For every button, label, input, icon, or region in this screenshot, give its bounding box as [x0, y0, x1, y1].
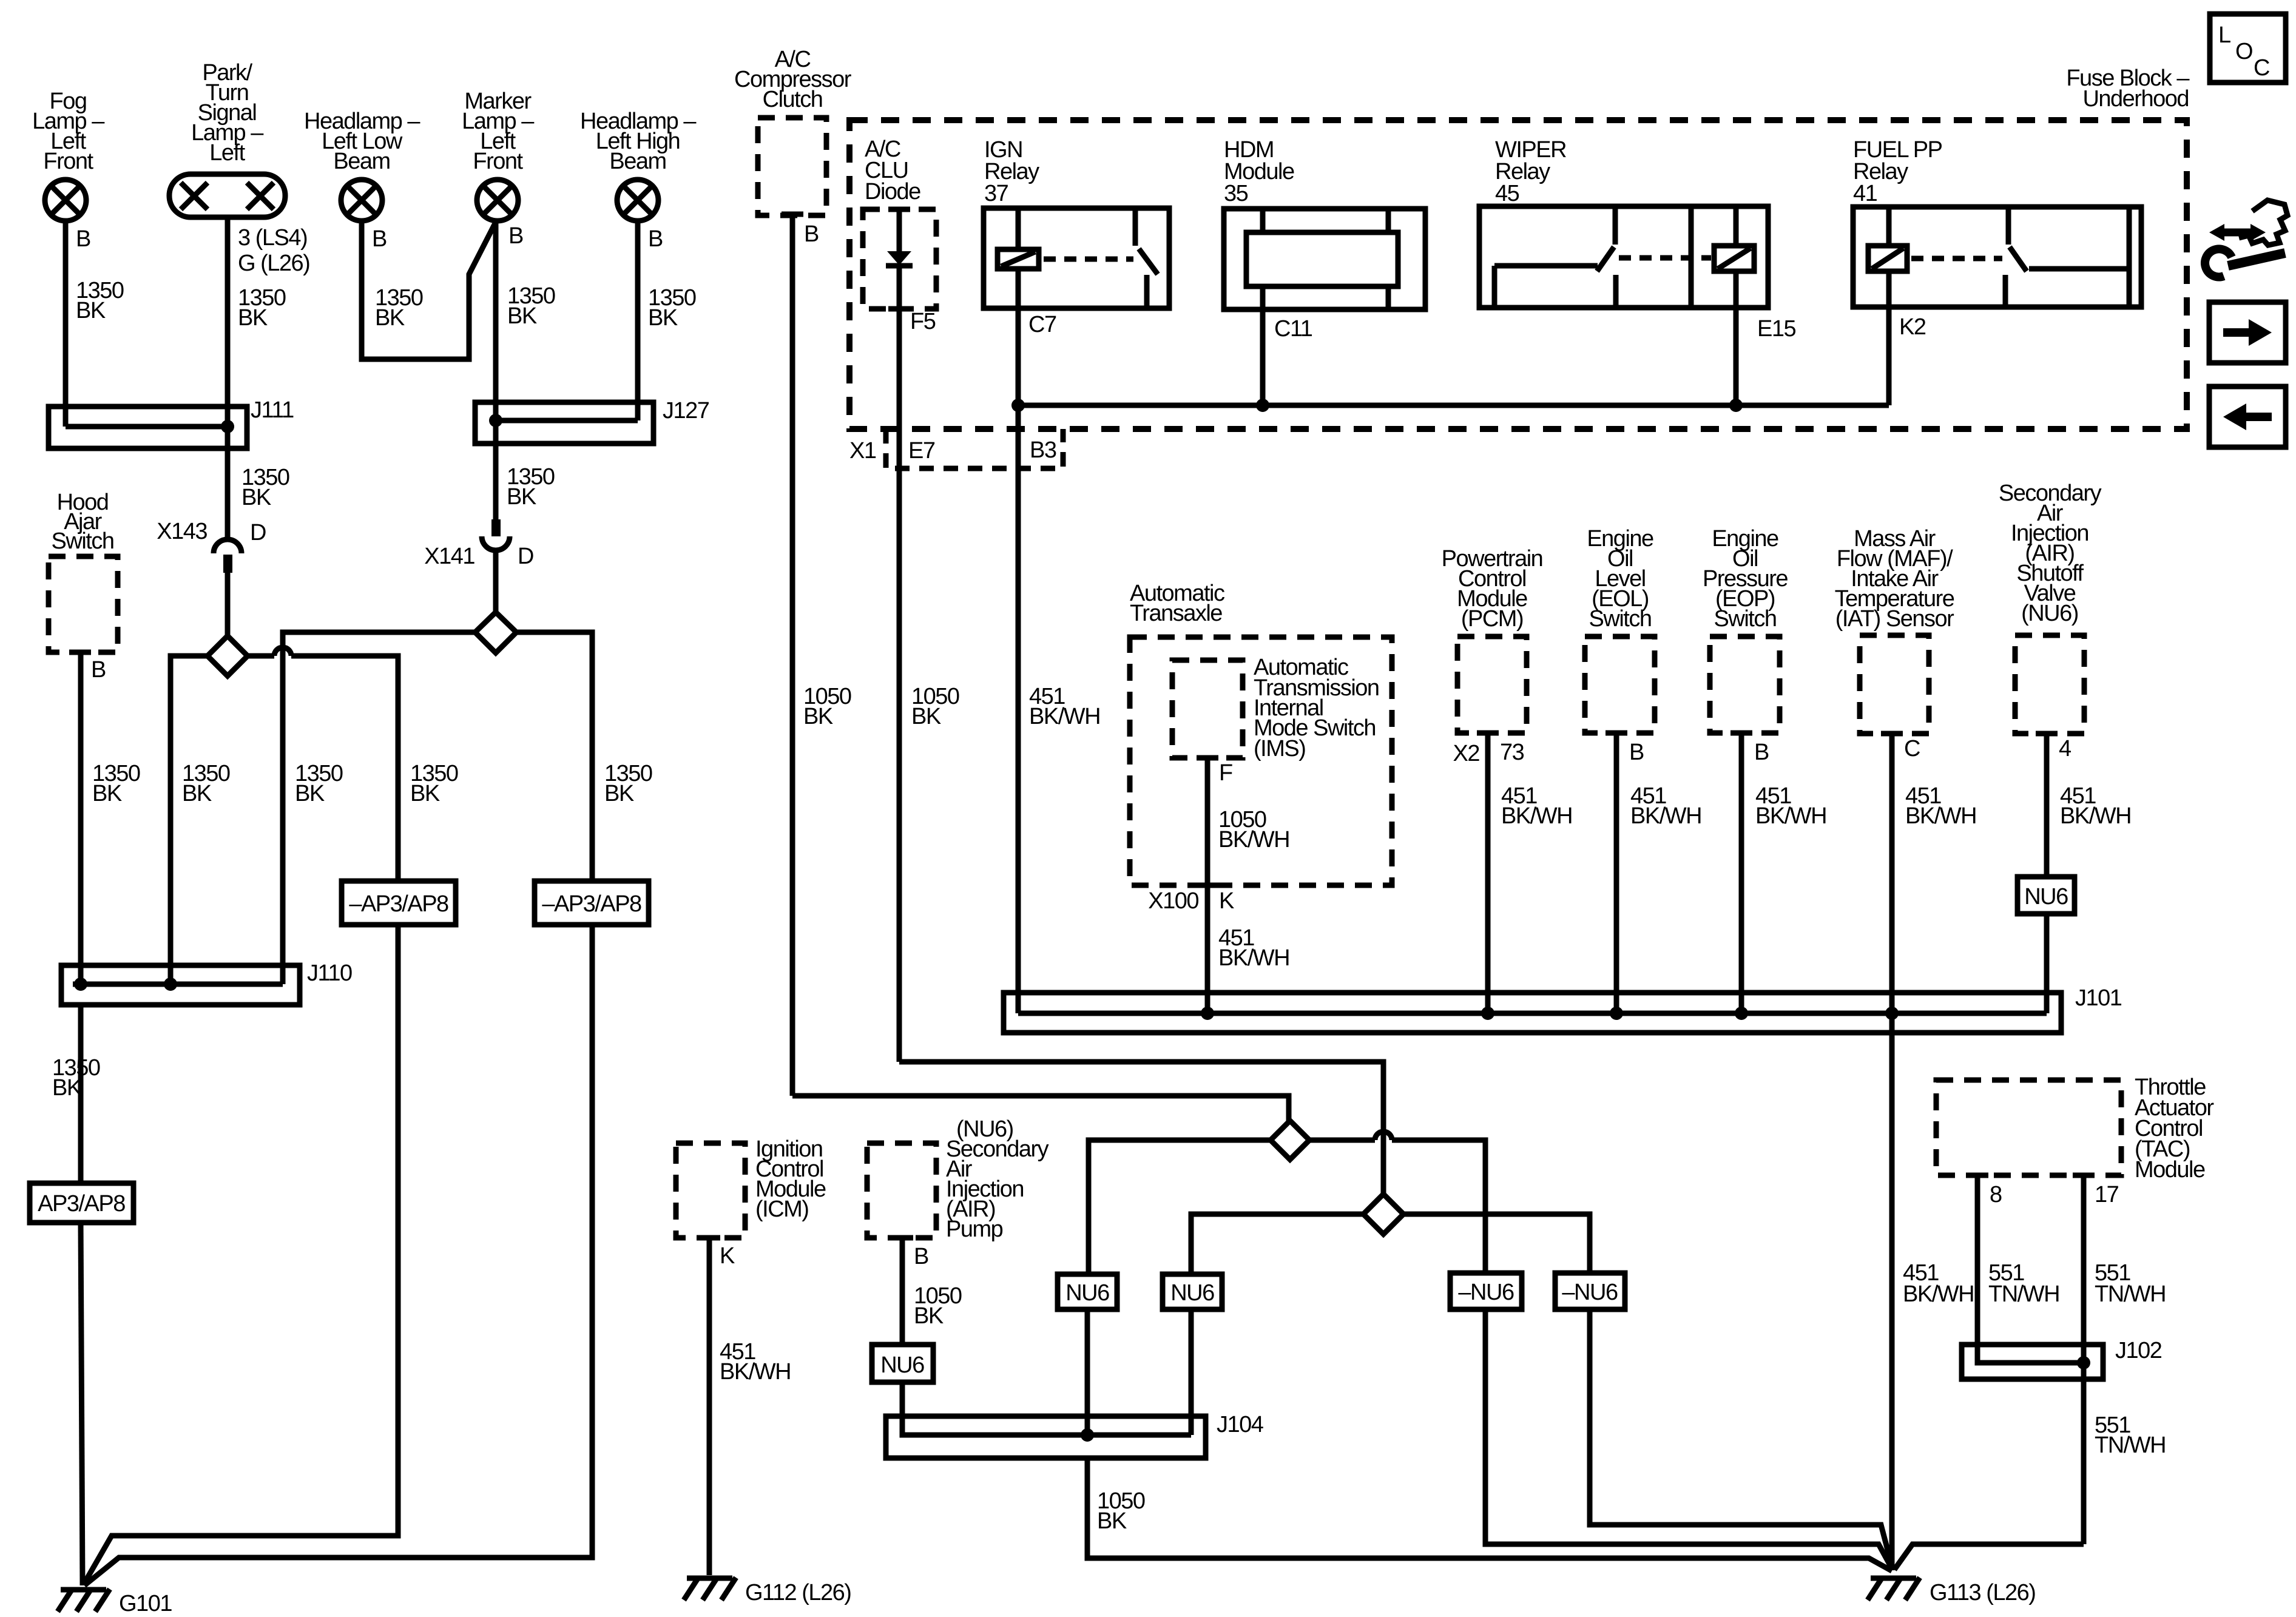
wire label 451 BK/WH (icm) [720, 1339, 791, 1385]
wire label 451 BK/WH (B3) [1029, 684, 1100, 729]
wire label 1350 BK (below J111) [241, 465, 289, 510]
wire 1350 BK J110 to AP3/AP8 [78, 1005, 84, 1183]
throttle actuator control label [2135, 1075, 2214, 1183]
svg-text:–AP3/AP8: –AP3/AP8 [542, 891, 641, 917]
svg-text:(PCM): (PCM) [1461, 606, 1523, 632]
wire wiper E15 to bus [1734, 271, 1739, 405]
svg-text:B: B [914, 1244, 928, 1269]
svg-text:BK: BK [76, 298, 106, 323]
loc box icon [2210, 14, 2286, 83]
wire 1050 BK diode down [897, 309, 902, 1062]
svg-text:B: B [1629, 740, 1644, 765]
pcm label [1442, 546, 1543, 632]
ground G112 [684, 1578, 736, 1600]
svg-text:BK/WH: BK/WH [1755, 803, 1826, 829]
hood ajar switch box [49, 556, 118, 652]
air pump label [946, 1136, 1049, 1242]
headlamp left low beam label [304, 109, 420, 174]
svg-text:Beam: Beam [609, 149, 666, 174]
fuel pp relay label [1853, 137, 1942, 206]
wire 1050 BK J104 to G113 [1087, 1458, 1892, 1571]
svg-text:J102: J102 [2115, 1338, 2162, 1363]
wire -NU6 first to G113 [1485, 1309, 1893, 1570]
wire label 1350 BK (marker) [507, 283, 555, 329]
svg-text:NU6: NU6 [880, 1352, 924, 1378]
splice pack J110 [61, 965, 300, 1005]
junction C11 bus [1256, 399, 1269, 412]
svg-text:BK: BK [648, 305, 678, 331]
svg-text:BK/WH: BK/WH [1218, 945, 1289, 971]
air shutoff valve label [1999, 481, 2102, 626]
svg-text:TN/WH: TN/WH [2095, 1433, 2166, 1458]
svg-text:G (L26): G (L26) [238, 251, 309, 276]
wire hop over diode vertical [1375, 1132, 1392, 1140]
wire X143 to diamond [225, 573, 231, 636]
wire 1350 BK high beam to J127 [635, 221, 641, 420]
a/c compressor clutch box [758, 118, 826, 215]
junction E15 bus [1729, 399, 1743, 412]
svg-text:BK: BK [238, 305, 268, 331]
svg-text:C7: C7 [1028, 312, 1056, 337]
svg-text:G112 (L26): G112 (L26) [745, 1580, 851, 1605]
svg-text:BK: BK [604, 781, 634, 806]
wire ign relay coil to bus and B3 [1016, 269, 1021, 429]
svg-text:B: B [648, 226, 663, 252]
wire diamond1 right arm with hop to -NU6 [1309, 1140, 1485, 1273]
svg-text:F5: F5 [910, 309, 936, 334]
back arrow box icon [2209, 387, 2286, 447]
ign relay label [984, 137, 1039, 206]
wire diamond right arm to -AP3/AP8 [516, 632, 592, 881]
wire 451 BK/WH B3 to J101 [1016, 429, 1021, 1013]
option box -NU6 (second) [1555, 1273, 1625, 1309]
maf iat sensor label [1835, 526, 1955, 632]
svg-text:(IAT) Sensor: (IAT) Sensor [1835, 606, 1954, 632]
svg-text:BK: BK [375, 305, 405, 331]
wire 451 BK/WH icm to G112 [707, 1238, 712, 1575]
ims label [1254, 655, 1379, 761]
wire label 1350 BK (X143 left branch) [182, 761, 230, 806]
hdm module 35 [1224, 209, 1425, 309]
svg-text:E7: E7 [908, 438, 935, 464]
svg-text:35: 35 [1224, 181, 1248, 206]
svg-text:(IMS): (IMS) [1254, 736, 1305, 761]
ign relay 37 [984, 208, 1169, 308]
connector X141 [482, 519, 510, 550]
wire label 451 BK/WH (x100) [1218, 925, 1289, 971]
wire label 1050 BK (diode) [911, 684, 959, 729]
wire label 551 TN/WH (pin17) [2095, 1260, 2166, 1307]
automatic transaxle label [1130, 581, 1224, 626]
svg-text:17: 17 [2095, 1182, 2119, 1207]
svg-text:X143: X143 [157, 519, 207, 544]
svg-text:73: 73 [1500, 740, 1524, 765]
wire label 1350 BK (X141 left branch) [295, 761, 343, 806]
svg-text:–AP3/AP8: –AP3/AP8 [349, 891, 448, 917]
svg-text:O: O [2235, 39, 2252, 64]
svg-text:45: 45 [1495, 181, 1519, 206]
wire label 451 BK/WH (maf lower) [1903, 1260, 1974, 1307]
fuse block underhood label [2066, 66, 2190, 112]
wire 451 BK/WH eop to J101 [1739, 733, 1744, 1013]
wire diamond1 left arm to NU6 box [1089, 1140, 1271, 1274]
wire label 1050 BK (a/c clutch) [803, 684, 851, 729]
a/c clu diode label [865, 137, 920, 204]
svg-text:X100: X100 [1148, 888, 1198, 914]
wire -AP3/AP8 right to G101 [84, 925, 592, 1585]
svg-text:Module: Module [2135, 1157, 2205, 1183]
headlamp left high beam label [580, 109, 697, 174]
wire label 1350 BK (hood) [92, 761, 140, 806]
fuse block underhood dashed border [849, 120, 2187, 429]
svg-text:Left: Left [209, 140, 245, 166]
eop switch label [1703, 526, 1788, 632]
wire 1350 BK J111 to X143 [225, 448, 231, 539]
svg-text:Front: Front [473, 149, 523, 174]
svg-text:Switch: Switch [52, 528, 114, 554]
svg-text:41: 41 [1853, 181, 1877, 206]
wire 551 TN/WH pin17 through J102 [2081, 1175, 2087, 1544]
svg-text:D: D [250, 520, 266, 545]
svg-text:BK/WH: BK/WH [1903, 1281, 1974, 1307]
svg-text:(ICM): (ICM) [755, 1197, 808, 1222]
wire -NU6 second to G113 [1590, 1309, 1893, 1568]
svg-text:B: B [372, 226, 387, 252]
wire NU6 box2 to J104 [1189, 1309, 1194, 1435]
wire 451 BK/WH pcm to J101 [1485, 733, 1491, 1013]
svg-text:BK: BK [52, 1075, 82, 1101]
ground G113 [1868, 1578, 1920, 1600]
wire 1050 BK a/c clutch down [790, 214, 795, 1096]
svg-text:Front: Front [43, 149, 93, 174]
svg-text:BK/WH: BK/WH [1905, 803, 1976, 829]
option box NU6 (air pump wire) [872, 1345, 933, 1382]
wire label 1350 BK (fog) [76, 278, 124, 323]
wire 1350 BK fog lamp to J111 [63, 221, 69, 427]
fog lamp symbol [45, 180, 86, 221]
wire diode net to diamond 2 [899, 1062, 1383, 1194]
splice pack J127 [475, 402, 653, 444]
eol switch box [1585, 636, 1655, 733]
park/turn signal lamp label [191, 60, 264, 166]
svg-text:K: K [720, 1243, 735, 1269]
wire diamond left arm to J110 [171, 656, 208, 984]
throttle actuator control module box [1936, 1080, 2121, 1175]
svg-text:G101: G101 [119, 1591, 172, 1616]
eop switch box [1710, 636, 1780, 733]
wire diamond right arm with hop to -AP3/AP8 [248, 656, 398, 881]
wire a/c clutch net to diamond 1 [792, 1096, 1289, 1121]
svg-text:BK: BK [241, 485, 271, 510]
svg-text:B: B [1754, 740, 1769, 765]
pin labels 3 (LS4) / G (L26) [238, 225, 309, 276]
svg-text:L: L [2218, 22, 2230, 48]
svg-text:K: K [1219, 888, 1234, 914]
ground G101 [58, 1589, 110, 1612]
hdm module label [1224, 137, 1294, 206]
marker lamp left front label [462, 89, 535, 174]
option box -NU6 (first) [1450, 1273, 1522, 1309]
wire label 1050 BK (air pump) [914, 1283, 962, 1329]
splice pack J101 [1004, 993, 2061, 1033]
svg-text:D: D [518, 544, 533, 569]
svg-text:Switch: Switch [1714, 606, 1777, 632]
ignition control module box [676, 1143, 745, 1238]
svg-text:NU6: NU6 [1065, 1280, 1109, 1306]
wire label 1350 BK (X141 right branch) [604, 761, 652, 806]
wire NU6 box1 to J104 [1085, 1309, 1090, 1435]
svg-text:BK: BK [295, 781, 325, 806]
fuse box AP3/AP8 [30, 1183, 133, 1223]
wire label 1350 BK (X143 right branch) [410, 761, 458, 806]
ignition control module label [755, 1136, 826, 1222]
svg-text:Underhood: Underhood [2082, 86, 2189, 112]
svg-text:TN/WH: TN/WH [2095, 1281, 2166, 1307]
svg-text:BK: BK [803, 704, 833, 729]
wire label 1050 BK/WH [1218, 807, 1289, 852]
svg-text:E15: E15 [1757, 316, 1795, 342]
air pump box [867, 1143, 936, 1238]
svg-text:X2: X2 [1453, 741, 1480, 766]
a/c compressor clutch label [734, 47, 852, 112]
wire label 451 BK/WH (eop) [1755, 783, 1826, 829]
svg-text:X1: X1 [849, 438, 876, 464]
bus wire inside fuse block [1018, 403, 1889, 408]
wire 551 TN/WH pin8 to J102 [1975, 1175, 1980, 1363]
forward arrow box icon [2209, 302, 2286, 363]
svg-text:Clutch: Clutch [763, 87, 823, 112]
splice pack J111 [49, 407, 247, 448]
svg-text:BK: BK [182, 781, 212, 806]
connector X1 strip [886, 429, 1063, 468]
svg-text:BK/WH: BK/WH [1501, 803, 1572, 829]
wire 1350 BK AP3/AP8 to G101 [81, 1223, 83, 1585]
svg-text:4: 4 [2059, 736, 2071, 761]
headlamp low beam lamp symbol [341, 180, 382, 221]
a/c clu diode box [863, 209, 936, 309]
svg-text:–NU6: –NU6 [1458, 1280, 1514, 1305]
svg-text:BK: BK [507, 303, 537, 329]
wire -AP3/AP8 left to G101 [84, 925, 398, 1584]
svg-text:BK: BK [92, 781, 122, 806]
fog lamp label [32, 89, 105, 174]
wire fuel pp K2 to bus [1886, 271, 1892, 405]
marker lamp symbol [477, 180, 518, 221]
headlamp high beam lamp symbol [617, 180, 658, 221]
wire diamond2 left arm to NU6 box [1191, 1214, 1363, 1274]
option box NU6 (air valve wire) [2017, 877, 2075, 914]
splice diamond 1 (1050 BK net) [1271, 1121, 1309, 1160]
svg-text:BK: BK [914, 1303, 944, 1329]
svg-text:BK/WH: BK/WH [1029, 704, 1100, 729]
svg-text:BK/WH: BK/WH [1218, 827, 1289, 852]
svg-text:BK: BK [1097, 1508, 1127, 1534]
eol switch label [1587, 526, 1653, 632]
svg-text:C: C [2254, 55, 2269, 81]
svg-text:Switch: Switch [1589, 606, 1652, 632]
diode symbol [886, 209, 913, 309]
svg-text:J110: J110 [307, 960, 352, 986]
wire label 1350 BK (park) [238, 285, 286, 331]
svg-text:J127: J127 [663, 398, 709, 424]
svg-text:X141: X141 [424, 544, 474, 569]
svg-text:AP3/AP8: AP3/AP8 [38, 1191, 125, 1217]
wire 1050 BK air pump to NU6 [900, 1238, 905, 1345]
svg-text:B: B [804, 221, 819, 247]
svg-text:B: B [508, 223, 523, 249]
svg-text:Beam: Beam [333, 149, 390, 174]
svg-text:BK/WH: BK/WH [2060, 803, 2131, 829]
svg-text:J101: J101 [2075, 985, 2122, 1011]
svg-text:Transaxle: Transaxle [1130, 601, 1222, 626]
wire 1350 BK J127 to X141 [493, 444, 499, 519]
wire label 1050 BK (J104 out) [1097, 1488, 1145, 1534]
automatic transaxle box [1130, 637, 1392, 885]
wire diamond left arm down to J110 [283, 632, 475, 984]
svg-text:C: C [1904, 736, 1920, 761]
svg-text:37: 37 [984, 181, 1008, 206]
svg-text:G113 (L26): G113 (L26) [1930, 1580, 2035, 1605]
wire X141 to diamond [493, 550, 499, 612]
svg-text:NU6: NU6 [2024, 884, 2068, 910]
svg-text:K2: K2 [1899, 314, 1926, 340]
connector X143 [214, 539, 241, 573]
hood ajar switch label [52, 490, 114, 554]
svg-text:BK/WH: BK/WH [720, 1359, 791, 1385]
wire hdm C11 to bus [1260, 309, 1266, 405]
svg-text:BK: BK [911, 704, 941, 729]
svg-text:TN/WH: TN/WH [1988, 1281, 2059, 1307]
option box NU6 (first) [1058, 1274, 1117, 1309]
svg-text:J104: J104 [1217, 1412, 1264, 1437]
svg-text:B3: B3 [1030, 437, 1056, 463]
svg-text:BK: BK [507, 484, 536, 510]
splice pack J102 [1962, 1345, 2103, 1379]
wire label 451 BK/WH (eol) [1630, 783, 1701, 829]
svg-text:C11: C11 [1274, 316, 1312, 342]
wire label 1350 BK (below J127) [507, 464, 555, 510]
wire label 451 BK/WH (pcm) [1501, 783, 1572, 829]
wire 1350 BK hood ajar to J110 [78, 652, 84, 984]
wire 451 BK/WH air valve to J101 [2044, 734, 2050, 877]
wire label 551 TN/WH (below J102) [2095, 1413, 2166, 1458]
air shutoff valve box [2015, 635, 2084, 734]
wire label 451 BK/WH (maf) [1905, 783, 1976, 829]
splice diamond 2 (1050 BK net) [1363, 1194, 1403, 1234]
svg-text:B: B [91, 657, 106, 683]
svg-text:NU6: NU6 [1170, 1280, 1214, 1306]
svg-text:8: 8 [1990, 1182, 2002, 1207]
pcm box [1457, 636, 1527, 733]
option box NU6 (second) [1163, 1274, 1222, 1309]
svg-text:BK/WH: BK/WH [1630, 803, 1701, 829]
wire 451 BK/WH eol to J101 [1614, 733, 1619, 1013]
splice pack J104 [886, 1416, 1206, 1458]
wire 1350 BK marker lamp to J127 [493, 221, 499, 444]
svg-text:3 (LS4): 3 (LS4) [238, 225, 307, 251]
svg-text:F: F [1219, 760, 1232, 786]
junction C7 bus [1011, 399, 1025, 412]
fuse box -AP3/AP8 (right) [535, 881, 649, 925]
wire hop over X141 branch [274, 647, 291, 656]
maf iat sensor box [1860, 635, 1929, 734]
fuel pp relay 41 [1853, 207, 2141, 307]
svg-text:–NU6: –NU6 [1562, 1280, 1618, 1305]
wire 1050 BK/WH ims to J101 [1205, 758, 1210, 1013]
svg-text:B: B [76, 226, 90, 252]
ims box [1172, 660, 1243, 758]
wire label 451 BK/WH (air valve) [2060, 783, 2131, 829]
wire label 1350 BK (high beam) [648, 285, 696, 331]
wire label 1350 BK (low beam) [375, 285, 423, 331]
svg-text:(NU6): (NU6) [2021, 601, 2078, 626]
svg-text:BK: BK [410, 781, 440, 806]
wire 1350 BK park lamp to J111 [225, 217, 231, 448]
svg-text:Diode: Diode [865, 179, 920, 204]
wire 1350 BK low beam to marker lamp [362, 221, 496, 359]
splice diamond (park/turn branch) [208, 636, 248, 676]
splice diamond (marker branch) [475, 612, 516, 653]
svg-text:J111: J111 [251, 397, 294, 423]
wire label 1350 BK (below J110) [52, 1055, 100, 1101]
wiper relay 45 [1479, 206, 1768, 308]
wire diamond2 right arm to -NU6 [1403, 1214, 1590, 1273]
wire J102 to G113 [1894, 1544, 2084, 1570]
fuse box -AP3/AP8 (left) [342, 881, 456, 925]
wiper relay label [1495, 137, 1566, 206]
svg-text:Pump: Pump [946, 1217, 1003, 1242]
wire 451 BK/WH maf to J101 and G113 [1889, 734, 1895, 1570]
wire NU6 to J104 [900, 1382, 905, 1435]
park/turn signal lamp symbol [169, 174, 285, 217]
wire label 551 TN/WH (pin8) [1988, 1260, 2059, 1307]
car diagnostic icon [2205, 200, 2288, 277]
